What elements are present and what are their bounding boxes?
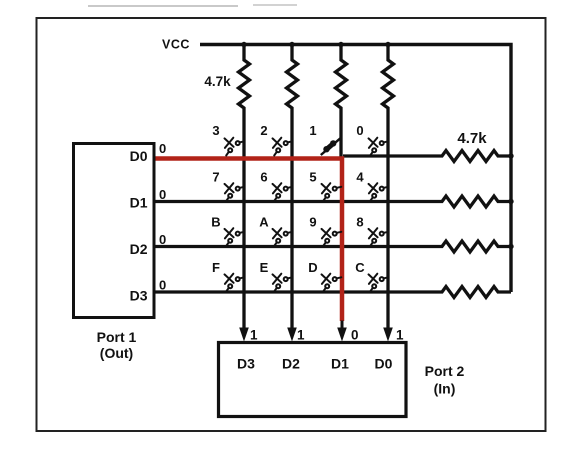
svg-text:D1: D1 — [130, 195, 148, 211]
svg-text:Port 1: Port 1 — [97, 329, 137, 345]
svg-text:0: 0 — [159, 187, 166, 202]
svg-text:VCC: VCC — [162, 38, 190, 52]
svg-text:2: 2 — [260, 123, 267, 138]
svg-text:1: 1 — [250, 328, 258, 343]
svg-text:C: C — [355, 260, 365, 275]
svg-text:0: 0 — [351, 328, 359, 343]
svg-text:D2: D2 — [130, 241, 148, 257]
svg-text:8: 8 — [356, 215, 363, 230]
svg-text:D2: D2 — [282, 356, 300, 372]
svg-text:4.7k: 4.7k — [457, 130, 487, 147]
svg-text:(In): (In) — [434, 381, 456, 397]
svg-text:F: F — [212, 260, 220, 275]
svg-text:(Out): (Out) — [100, 345, 133, 361]
svg-text:0: 0 — [159, 141, 166, 156]
svg-text:D1: D1 — [331, 356, 349, 372]
svg-text:3: 3 — [212, 123, 219, 138]
svg-text:4.7k: 4.7k — [204, 74, 231, 89]
svg-text:7: 7 — [212, 170, 219, 185]
svg-text:0: 0 — [356, 123, 363, 138]
svg-text:4: 4 — [356, 170, 364, 185]
svg-text:D3: D3 — [237, 356, 255, 372]
svg-text:D3: D3 — [130, 288, 148, 304]
svg-text:E: E — [260, 260, 269, 275]
svg-text:A: A — [259, 215, 269, 230]
svg-text:D0: D0 — [130, 148, 148, 164]
svg-text:1: 1 — [309, 123, 316, 138]
svg-text:1: 1 — [297, 328, 305, 343]
svg-text:1: 1 — [396, 328, 404, 343]
svg-text:9: 9 — [309, 215, 316, 230]
svg-text:Port 2: Port 2 — [425, 363, 465, 379]
svg-text:B: B — [211, 215, 220, 230]
svg-text:0: 0 — [159, 232, 166, 247]
svg-text:D0: D0 — [375, 356, 393, 372]
svg-text:6: 6 — [260, 170, 267, 185]
svg-text:0: 0 — [159, 277, 166, 292]
svg-text:D: D — [308, 260, 317, 275]
svg-text:5: 5 — [309, 170, 316, 185]
